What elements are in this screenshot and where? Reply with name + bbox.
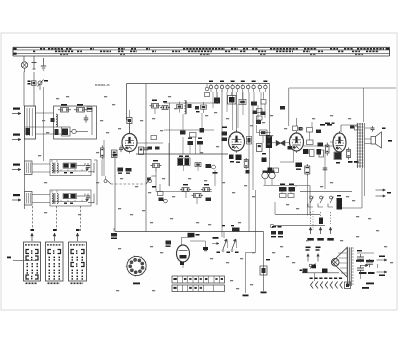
svg-text:B45984-45: B45984-45: [95, 83, 110, 87]
